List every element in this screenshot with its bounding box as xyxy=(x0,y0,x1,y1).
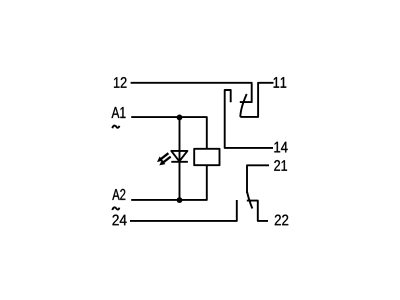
wire 14 with NO hook xyxy=(225,90,273,148)
label A2 xyxy=(112,189,125,200)
wire 21 common feed xyxy=(247,165,269,193)
coil K1 xyxy=(194,149,219,165)
contact blade pole 1 xyxy=(240,94,246,117)
LED arrow 1 xyxy=(157,153,168,162)
tilde under A2 xyxy=(112,207,119,210)
node junction bottom xyxy=(177,197,183,203)
wire 12 line with NC seat hook xyxy=(131,83,252,102)
node junction top xyxy=(177,115,183,121)
label 21 xyxy=(274,160,287,171)
wire A1 to coil top xyxy=(131,117,207,149)
label 22 xyxy=(275,215,288,226)
wire 11 common feed xyxy=(240,83,273,117)
LED arrow 2 xyxy=(159,157,170,166)
contact blade pole 2 xyxy=(247,192,252,209)
wire LED branch xyxy=(179,117,181,200)
label 11 xyxy=(274,77,287,88)
label 24 xyxy=(113,215,127,226)
LED cathode bar xyxy=(171,161,188,163)
tilde under A1 xyxy=(112,126,119,129)
label 12 xyxy=(114,77,127,88)
wire 24 with NO stub xyxy=(130,200,237,221)
label 14 xyxy=(274,142,287,153)
wire coil bottom to A2 xyxy=(131,165,207,200)
label A1 xyxy=(112,107,126,118)
wire 22 with NC seat xyxy=(247,201,268,221)
LED diode triangle xyxy=(171,151,187,161)
